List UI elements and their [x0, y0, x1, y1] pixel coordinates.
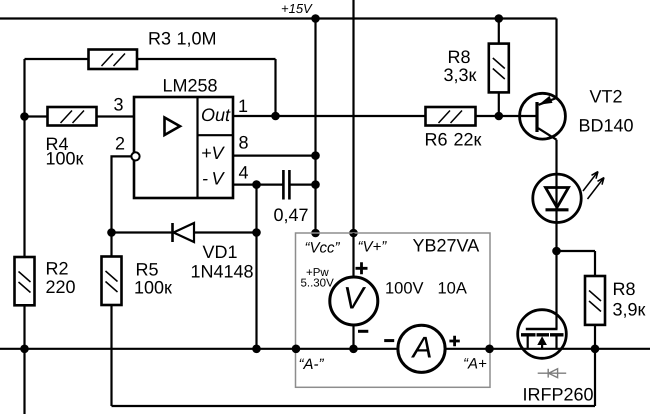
capacitor C1 0,47: [283, 170, 289, 200]
svg-text:5..30V: 5..30V: [301, 277, 335, 289]
wire R4 left: [25, 115, 48, 117]
svg-text:22к: 22к: [454, 130, 482, 150]
wire R3 feedback left: [25, 59, 276, 116]
svg-text:R8: R8: [448, 47, 471, 67]
svg-text:+V: +V: [201, 143, 226, 163]
svg-text:8: 8: [239, 133, 249, 153]
node R8b bus junction: [591, 345, 600, 354]
wire R4 to pin3: [97, 115, 135, 117]
svg-text:V: V: [212, 169, 226, 189]
resistor R8 3,9k: [585, 276, 605, 325]
wire pin8 to +15 line: [233, 155, 316, 157]
svg-text:3: 3: [114, 95, 124, 115]
node R8a rail junction: [495, 14, 504, 23]
svg-text:YB27VA: YB27VA: [413, 236, 480, 256]
ammeter minus: [384, 339, 394, 342]
svg-text:3,3к: 3,3к: [444, 65, 477, 85]
node A+ terminal: [485, 345, 494, 354]
svg-text:220: 220: [46, 277, 76, 297]
wire +15V top rail: [0, 17, 557, 19]
op-amp U1 LM258 box: [134, 97, 233, 198]
voltmeter minus: [358, 330, 368, 333]
wire R5 bottom down to return line: [110, 305, 112, 406]
node -V bus junction: [252, 345, 261, 354]
node junction R3/R4/R2: [20, 112, 29, 121]
wire V+ to voltmeter: [352, 233, 354, 278]
wire R5 top: [110, 233, 112, 257]
node LED cathode junction: [552, 247, 561, 256]
wire R8a bottom: [498, 92, 500, 116]
svg-text:R2: R2: [46, 259, 69, 279]
wire LED node to R8b: [557, 251, 596, 276]
svg-text:Out: Out: [201, 105, 231, 125]
voltmeter plus: [356, 262, 368, 274]
node V+ terminal: [349, 229, 358, 238]
svg-text:LM258: LM258: [163, 76, 218, 96]
wire V+ sense line from top edge: [352, 0, 354, 233]
svg-text:1,0M: 1,0M: [177, 29, 217, 49]
node A- terminal: [292, 345, 301, 354]
wire pin4 to capacitor: [233, 184, 283, 186]
wire R6 to VT2 base: [476, 115, 538, 117]
svg-text:-: -: [202, 169, 208, 189]
svg-text:100V: 100V: [385, 280, 424, 298]
wire VD1 right: [194, 231, 257, 233]
op-amp triangle: [165, 118, 181, 136]
svg-text:2: 2: [115, 134, 125, 154]
wire R2 bottom to bus and off bottom edge: [23, 305, 25, 414]
node Vcc terminal: [311, 229, 320, 238]
node VD1/R5 junction: [107, 228, 116, 237]
svg-text:100к: 100к: [46, 149, 84, 169]
resistor R8 3,3k: [489, 44, 509, 93]
wire VT2 emitter vertical from rail: [555, 19, 557, 99]
ammeter plus: [449, 336, 459, 346]
node cap junction: [311, 180, 320, 189]
wire +15 vertical line to Vcc: [314, 19, 316, 234]
svg-text:V: V: [343, 281, 367, 316]
svg-text:1: 1: [238, 96, 248, 116]
body diode gray: [538, 369, 567, 378]
svg-text:BD140: BD140: [579, 116, 634, 136]
svg-text:“V+”: “V+”: [358, 239, 388, 256]
wire pin2 to VD1 node: [112, 156, 132, 232]
svg-text:R3: R3: [148, 29, 171, 49]
svg-text:10A: 10A: [438, 280, 467, 298]
node VD1 right junction: [252, 228, 261, 237]
transistor VT1 IRFP260 MOSFET: [518, 310, 567, 359]
node voltmeter bus junction: [349, 345, 358, 354]
resistor R5: [102, 257, 122, 306]
node feedback junction on out: [271, 112, 280, 121]
svg-text:“A+: “A+: [463, 356, 487, 373]
wire voltmeter to bus: [352, 325, 354, 349]
node rail dot: [311, 14, 320, 23]
wire VT2 collector to LED: [555, 140, 557, 173]
ammeter A: [398, 325, 445, 372]
resistor R6: [426, 107, 476, 126]
node -V cap junction: [252, 180, 261, 189]
transistor VT2 BD140: [520, 93, 566, 139]
svg-text:R5: R5: [136, 260, 159, 280]
svg-text:“A-”: “A-”: [299, 356, 325, 373]
svg-text:R8: R8: [613, 279, 636, 299]
LED HL1: [533, 172, 604, 252]
wire capacitor right: [291, 184, 316, 186]
diode VD1: [173, 223, 195, 242]
node base junction: [495, 112, 504, 121]
svg-text:A: A: [410, 331, 432, 364]
wire op-amp out to R6: [233, 115, 426, 117]
wire ground bus: [0, 348, 650, 350]
svg-text:VD1: VD1: [203, 242, 238, 262]
svg-text:1N4148: 1N4148: [191, 262, 254, 282]
wire bottom return line: [112, 349, 596, 406]
svg-text:3,9к: 3,9к: [613, 300, 646, 320]
pin 2 open circle: [131, 152, 139, 160]
svg-text:R6: R6: [425, 130, 448, 150]
wire R8b bottom: [594, 325, 596, 349]
resistor R3: [89, 50, 138, 70]
svg-text:4: 4: [239, 163, 249, 183]
svg-text:“Vcc”: “Vcc”: [305, 240, 341, 257]
svg-text:100к: 100к: [134, 278, 172, 298]
voltmeter V: [330, 277, 378, 325]
node pin8 junction: [311, 151, 320, 160]
wire R8a top: [498, 19, 500, 44]
svg-text:+15V: +15V: [281, 1, 313, 16]
svg-text:0,47: 0,47: [274, 205, 309, 225]
wire MOSFET gate lead: [555, 251, 557, 329]
node R2 bus junction: [20, 345, 29, 354]
svg-text:VT2: VT2: [590, 87, 623, 107]
wire left column vertical: [23, 59, 25, 257]
meter module YB27VA box: [296, 233, 491, 387]
wire -V line down to bus: [255, 185, 257, 349]
resistor R2: [15, 257, 35, 305]
svg-text:IRFP260: IRFP260: [523, 385, 594, 405]
wire VD1 left: [112, 231, 173, 233]
resistor R4: [48, 107, 97, 126]
